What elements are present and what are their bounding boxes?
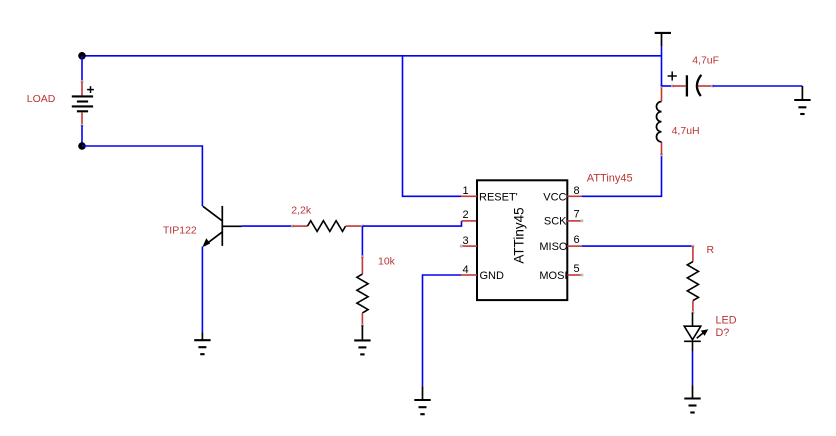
svg-text:LOAD: LOAD	[27, 93, 56, 105]
pin 4 stub	[461, 274, 477, 276]
wire battery top lead	[81, 56, 83, 82]
terminal T top	[655, 33, 671, 46]
svg-text:R: R	[707, 244, 715, 256]
svg-text:RESET': RESET'	[479, 191, 518, 203]
wire 10k to ground	[361, 313, 363, 325]
wire emitter down	[201, 247, 203, 333]
node B	[78, 142, 86, 150]
transistor Q1 TIP122	[203, 206, 242, 246]
node D wires	[661, 46, 663, 86]
diode LED D?	[684, 312, 705, 351]
capacitor C1 plates	[686, 75, 688, 96]
resistor R3 10k	[357, 274, 368, 313]
wire base to resistor	[242, 225, 293, 227]
wire pin1 to top rail	[403, 56, 462, 197]
svg-text:TIP122: TIP122	[163, 224, 197, 236]
svg-text:6: 6	[573, 234, 579, 246]
svg-text:GND: GND	[480, 270, 505, 282]
node A	[78, 52, 86, 60]
svg-text:8: 8	[573, 185, 579, 197]
battery LOAD	[72, 96, 93, 111]
ground at capacitor	[794, 86, 810, 114]
wire node C to pin 2	[362, 221, 461, 226]
svg-text:4: 4	[462, 264, 468, 276]
pin 5 stub	[567, 274, 581, 276]
svg-text:VCC: VCC	[543, 191, 566, 203]
svg-text:D?: D?	[716, 327, 730, 339]
svg-text:2,2k: 2,2k	[291, 204, 312, 216]
svg-text:MISO: MISO	[539, 241, 568, 253]
pin 3 stub	[461, 245, 477, 247]
pin 1 stub	[461, 195, 477, 197]
capacitor C1 4,7uF plus	[668, 71, 677, 80]
resistor R2 2,2k	[308, 221, 346, 232]
wire node B to transistor collector	[82, 146, 202, 206]
wire top rail	[82, 55, 662, 57]
node C junction	[361, 225, 364, 228]
wire battery bottom lead	[81, 112, 83, 125]
svg-text:1: 1	[462, 185, 468, 197]
pin 8 stub	[567, 195, 581, 197]
svg-text:2: 2	[462, 209, 468, 221]
svg-text:LED: LED	[716, 314, 737, 326]
resistor R4 R	[687, 262, 698, 301]
svg-text:7: 7	[573, 209, 579, 221]
wire pin4 to ground	[423, 275, 462, 386]
svg-text:SCK: SCK	[544, 215, 567, 227]
wire pin8 VCC to inductor	[582, 155, 662, 197]
svg-text:ATTiny45: ATTiny45	[512, 207, 527, 263]
wire node C to 10k	[361, 226, 363, 257]
wire inductor top to node D	[661, 86, 663, 102]
wire pin6 MISO to resistor R	[582, 245, 693, 247]
pin 7 stub	[567, 220, 581, 222]
svg-text:3: 3	[462, 235, 468, 247]
svg-text:ATTiny45: ATTiny45	[587, 172, 633, 184]
wire LED to ground	[692, 351, 694, 385]
svg-text:4,7uH: 4,7uH	[672, 125, 700, 137]
wire resistor to LED	[692, 301, 694, 313]
wire resistor to node C	[346, 225, 363, 227]
inductor L1 4,7uH	[656, 102, 661, 142]
wire capacitor to ground	[698, 85, 713, 87]
ground at 10k	[354, 325, 370, 354]
pin 6 stub	[567, 245, 581, 247]
svg-text:MOSI: MOSI	[539, 270, 567, 282]
svg-text:4,7uF: 4,7uF	[692, 54, 719, 66]
ground at pin4	[414, 386, 430, 414]
svg-text:10k: 10k	[378, 256, 396, 268]
ground at LED	[684, 385, 700, 412]
op IC U1 ATTiny45 box	[477, 180, 567, 300]
svg-text:5: 5	[573, 263, 579, 275]
wire node D to capacitor	[662, 85, 673, 87]
ground at TIP122 emitter	[194, 333, 210, 355]
